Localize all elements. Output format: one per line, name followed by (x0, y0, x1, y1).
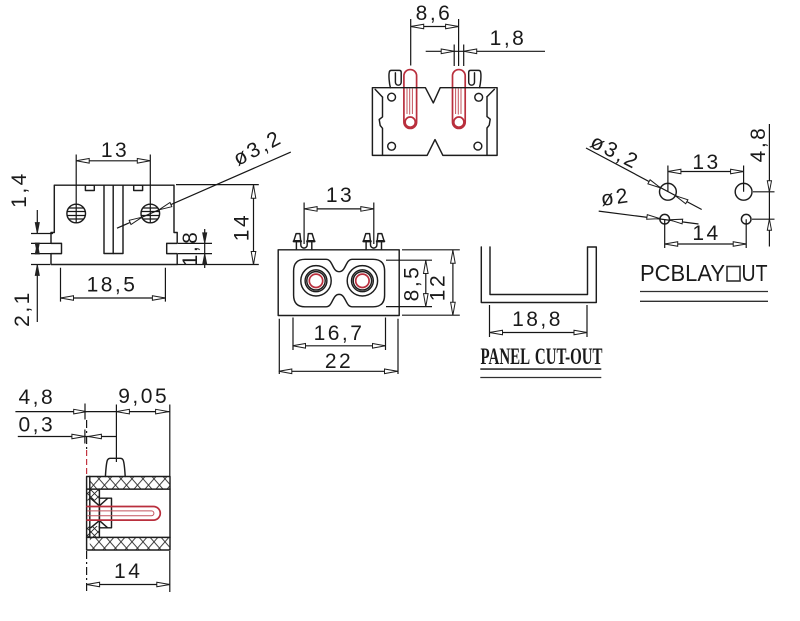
svg-text:2,1: 2,1 (11, 290, 34, 327)
svg-text:ø3,2: ø3,2 (587, 130, 644, 174)
svg-text:8,6: 8,6 (416, 2, 453, 25)
svg-text:22: 22 (325, 350, 353, 373)
svg-text:18,8: 18,8 (512, 308, 563, 331)
svg-text:4,8: 4,8 (747, 126, 770, 163)
svg-text:UT: UT (742, 260, 768, 286)
svg-text:ø2: ø2 (599, 184, 631, 211)
svg-text:4,8: 4,8 (18, 386, 55, 409)
svg-text:PANEL CUT-OUT: PANEL CUT-OUT (481, 344, 603, 369)
svg-text:14: 14 (114, 560, 142, 583)
svg-text:ø3,2: ø3,2 (230, 126, 287, 171)
svg-text:PCBLAY: PCBLAY (640, 260, 725, 286)
svg-text:14: 14 (230, 213, 253, 241)
svg-text:14: 14 (692, 222, 720, 245)
svg-text:1,8: 1,8 (179, 230, 202, 267)
svg-text:1,4: 1,4 (8, 171, 31, 208)
svg-text:16,7: 16,7 (314, 322, 365, 345)
svg-text:1,8: 1,8 (490, 27, 527, 50)
svg-text:0,3: 0,3 (18, 414, 55, 437)
svg-text:9,05: 9,05 (118, 385, 169, 408)
svg-text:8,5: 8,5 (401, 265, 424, 302)
svg-text:13: 13 (692, 151, 720, 174)
svg-text:13: 13 (101, 139, 129, 162)
svg-text:18,5: 18,5 (87, 274, 138, 297)
svg-text:13: 13 (326, 184, 354, 207)
svg-text:12: 12 (427, 273, 450, 301)
